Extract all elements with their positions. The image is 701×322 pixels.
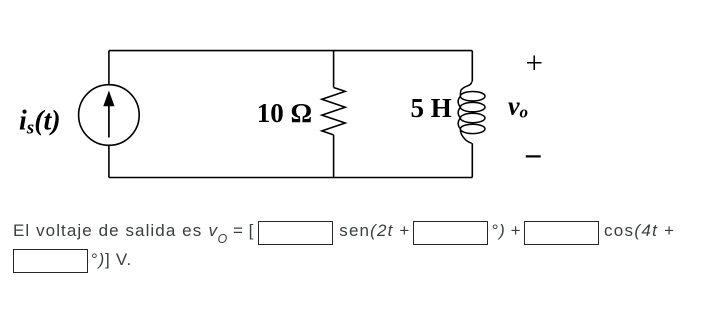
text: °)] V. xyxy=(91,251,132,268)
input box 1 xyxy=(258,221,333,245)
current source IS circle xyxy=(79,85,140,146)
resistor R 10ohm zigzag xyxy=(322,88,345,135)
wire left upper segment xyxy=(108,51,110,85)
wire left lower segment xyxy=(108,145,110,177)
wire right upper segment xyxy=(471,51,473,82)
wire middle lower segment xyxy=(333,135,335,178)
text: vO = [ xyxy=(209,222,254,241)
text: sen(2t + xyxy=(339,222,410,239)
input box 3 xyxy=(524,221,600,245)
text: El voltaje de salida es xyxy=(13,222,202,239)
svg-text:+: + xyxy=(525,45,542,80)
inductor L 5H coil xyxy=(458,82,485,144)
wire bottom xyxy=(109,177,472,179)
svg-text:−: − xyxy=(524,138,542,174)
text: °) + xyxy=(492,222,521,239)
svg-text:10 Ω: 10 Ω xyxy=(257,98,312,128)
current source arrow xyxy=(103,91,114,138)
svg-text:is(t): is(t) xyxy=(19,105,61,138)
wire right lower segment xyxy=(471,143,473,177)
wire middle upper segment xyxy=(333,51,335,88)
wire top xyxy=(109,50,472,52)
input box 4 xyxy=(13,249,88,273)
svg-text:vo: vo xyxy=(508,92,528,122)
svg-text:5 H: 5 H xyxy=(411,93,452,123)
circuit schematic xyxy=(0,0,701,210)
text: cos(4t + xyxy=(604,222,675,239)
input box 2 xyxy=(413,221,489,245)
